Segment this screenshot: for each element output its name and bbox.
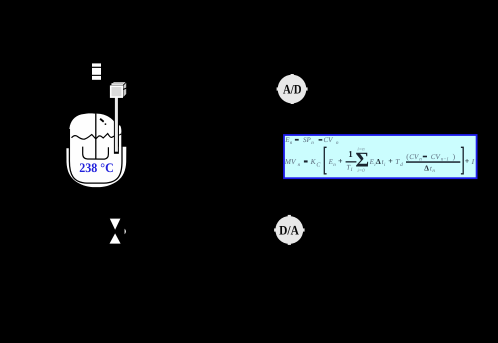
equation line 2: MVn = KC [ En + 1/TI sum Ei dti + Td (CVn-CVn-1)/dtn ] + I bbox=[284, 146, 475, 174]
svg-text:1: 1 bbox=[348, 149, 353, 159]
equation box bbox=[284, 135, 477, 178]
svg-text:MV: MV bbox=[284, 157, 297, 166]
svg-text:SP: SP bbox=[303, 136, 312, 144]
equation line 1: En = SPn - CVn bbox=[284, 136, 339, 146]
svg-text:+: + bbox=[388, 156, 393, 165]
svg-text:CV: CV bbox=[409, 153, 419, 161]
tank inner vessel wall line bbox=[69, 129, 122, 183]
svg-text:i=0: i=0 bbox=[357, 168, 365, 174]
dome hatch dot bbox=[105, 123, 107, 125]
svg-text:A/D: A/D bbox=[283, 82, 302, 97]
svg-text:CV: CV bbox=[431, 153, 441, 161]
right bracket bbox=[461, 147, 463, 174]
svg-text:D/A: D/A bbox=[279, 223, 299, 238]
svg-text:I: I bbox=[471, 157, 475, 166]
tank upper body with dome top bbox=[69, 113, 121, 152]
svg-text:Δ: Δ bbox=[376, 157, 381, 166]
dome hatch dash bbox=[100, 119, 104, 122]
svg-text:I: I bbox=[350, 167, 353, 173]
A/D converter circle bbox=[277, 74, 308, 104]
svg-text:CV: CV bbox=[324, 136, 334, 144]
control valve body lower triangle bbox=[110, 233, 121, 243]
svg-text:Δ: Δ bbox=[424, 164, 429, 173]
left bracket bbox=[324, 147, 326, 174]
liquid surface wavy line bbox=[72, 134, 115, 140]
svg-text:+: + bbox=[465, 157, 470, 166]
svg-text:238 °C: 238 °C bbox=[79, 160, 114, 175]
stirrer shaft bbox=[95, 114, 97, 159]
sensor head cube bbox=[110, 82, 127, 98]
control valve body upper triangle bbox=[110, 219, 121, 230]
valve stem crescent bbox=[125, 229, 126, 235]
inner draft tube U bbox=[83, 147, 109, 160]
svg-text:i=n: i=n bbox=[357, 146, 365, 152]
D/A converter circle bbox=[274, 215, 305, 245]
motor terminal stack bbox=[92, 63, 101, 79]
tank T1 vessel bowl bbox=[66, 147, 126, 187]
thermowell tube bbox=[114, 98, 119, 154]
svg-text:+: + bbox=[338, 156, 343, 165]
